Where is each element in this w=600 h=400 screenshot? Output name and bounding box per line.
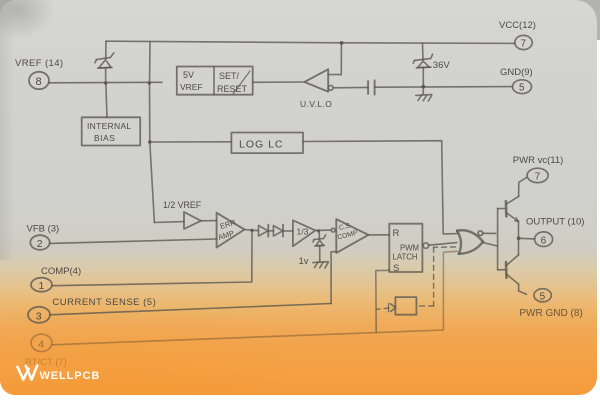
svg-text:VCC(12): VCC(12)	[499, 20, 536, 31]
svg-text:5: 5	[519, 83, 525, 94]
svg-text:6: 6	[541, 235, 547, 246]
node junction	[148, 81, 152, 85]
wire: top VCC rail	[106, 41, 515, 43]
wire: error amp output	[245, 230, 259, 231]
wire: COMP to error amp output	[52, 230, 252, 285]
pin VFB (3)	[27, 224, 60, 250]
wire: to OUTPUT pin	[519, 237, 535, 240]
svg-text:VREF: VREF	[180, 82, 203, 92]
svg-text:PWR vc(11): PWR vc(11)	[513, 155, 564, 166]
pin RT/CT (4 circle)	[31, 334, 52, 351]
block: PWM latch	[389, 224, 428, 274]
pin VCC (12)	[499, 20, 536, 50]
svg-text:R: R	[393, 228, 400, 239]
svg-text:VREF (14): VREF (14)	[15, 58, 63, 69]
wire: vertical branch to 1/2 vref buffer	[150, 42, 155, 222]
wire: latch S input loop	[376, 270, 390, 332]
wire: VFB to error amp	[50, 239, 217, 243]
wire: emitter to PWR GND pin	[519, 284, 527, 294]
pin PWR VC (11)	[513, 155, 564, 183]
wire: rail down to zener D1	[105, 41, 107, 59]
block: blanking box	[389, 297, 417, 315]
svg-text:S: S	[393, 263, 399, 274]
svg-text:4: 4	[38, 338, 44, 350]
svg-text:1/2 VREF: 1/2 VREF	[163, 200, 202, 210]
diode D3	[259, 225, 274, 237]
node junction	[421, 85, 425, 89]
svg-text:1/3: 1/3	[297, 227, 309, 237]
pin PWR GND (8)	[519, 289, 582, 319]
zener diode D1	[95, 53, 114, 83]
svg-text:VFB (3): VFB (3)	[27, 224, 60, 235]
wire: output node	[518, 221, 520, 255]
pin GND (9)	[500, 67, 533, 94]
wire: UVLO to capacitor	[333, 86, 368, 88]
svg-text:5: 5	[540, 291, 546, 302]
pin OUTPUT (10)	[526, 217, 584, 247]
op-amp: error amplifier	[217, 213, 245, 248]
block: 5V VREF / SET-RESET	[177, 67, 253, 95]
svg-text:INTERNAL: INTERNAL	[87, 121, 131, 131]
nor gate U2	[457, 230, 483, 254]
ground under zener D2	[416, 95, 432, 101]
wire: latch output to NOR input	[429, 243, 457, 246]
wire: set/reset to UVLO	[253, 81, 305, 83]
svg-text:LOG LC: LOG LC	[239, 139, 284, 151]
zener diode D2 36V	[413, 43, 450, 94]
watermark logo	[18, 366, 38, 380]
svg-text:1: 1	[39, 280, 45, 292]
node junction	[250, 229, 253, 232]
zener diode D5 1V clamp	[299, 231, 326, 267]
svg-text:AMP: AMP	[217, 229, 235, 242]
svg-text:36V: 36V	[433, 60, 451, 71]
node junction	[317, 229, 320, 232]
svg-text:2: 2	[37, 238, 43, 250]
node junction	[340, 41, 344, 45]
svg-text:PWR GND (8): PWR GND (8)	[519, 308, 582, 319]
block: LOG LC	[231, 133, 303, 154]
ground under 1V zener	[313, 262, 329, 268]
transistor Q2 PNP	[498, 255, 519, 284]
pin CURRENT SENSE (5)	[28, 297, 156, 323]
svg-text:5V: 5V	[183, 70, 194, 80]
wire (dashed): latch output feedback	[377, 247, 456, 309]
wire: comparator to PWM latch	[368, 234, 389, 236]
node junction	[104, 81, 108, 85]
op-amp U1: UVLO comparator	[300, 69, 333, 109]
diode D4	[273, 225, 293, 237]
wire: base rail	[497, 209, 499, 270]
buffer: 1/3 divider	[293, 220, 331, 246]
wire: zener to internal bias	[106, 83, 107, 117]
svg-text:GND(9): GND(9)	[500, 67, 533, 78]
wire: capacitor to GND pin 5	[375, 86, 513, 89]
svg-text:CURRENT SENSE (5): CURRENT SENSE (5)	[52, 297, 156, 308]
svg-text:COMP(4): COMP(4)	[41, 266, 81, 277]
buffer: 1/2 VREF	[154, 200, 216, 229]
block: internal bias	[82, 117, 141, 145]
wire: LOG LC to NOR top input	[303, 141, 457, 234]
wire: current sense input up to comparator	[331, 252, 336, 304]
wire: NOR outputs to driver base rail	[483, 232, 496, 234]
pin VREF (14)	[15, 58, 63, 89]
pin COMP (4)	[31, 266, 81, 292]
capacitor C1	[368, 80, 375, 94]
comparator: current sense C.S. COMP	[331, 219, 368, 253]
svg-text:RESET: RESET	[217, 84, 248, 94]
svg-text:RT/CT (7): RT/CT (7)	[25, 357, 67, 368]
node junction	[517, 236, 521, 240]
svg-text:SET/: SET/	[219, 71, 240, 81]
svg-text:PWM: PWM	[400, 244, 419, 253]
wire: pin 4 to NOR bottom input	[52, 251, 457, 344]
node junction	[148, 140, 152, 144]
wire: branch to LOG LC	[150, 141, 232, 143]
svg-text:1v: 1v	[299, 256, 309, 267]
transistor Q1 NPN	[498, 196, 519, 221]
wire: pin 3 to comparator	[50, 304, 331, 315]
wire: rail feed to UVLO	[328, 43, 341, 75]
wire: collector to PWR VC pin	[519, 177, 527, 196]
svg-text:3: 3	[36, 310, 42, 322]
svg-text:OUTPUT (10): OUTPUT (10)	[526, 217, 584, 228]
svg-text:7: 7	[521, 39, 527, 50]
svg-text:WELLPCB: WELLPCB	[40, 370, 101, 382]
svg-text:LATCH: LATCH	[393, 253, 418, 262]
svg-text:7: 7	[535, 172, 541, 183]
svg-text:BIAS: BIAS	[94, 133, 115, 143]
wire: pin 8 to 5V VREF	[49, 81, 162, 84]
svg-text:U.V.L.O: U.V.L.O	[300, 99, 332, 109]
svg-text:8: 8	[36, 76, 42, 88]
